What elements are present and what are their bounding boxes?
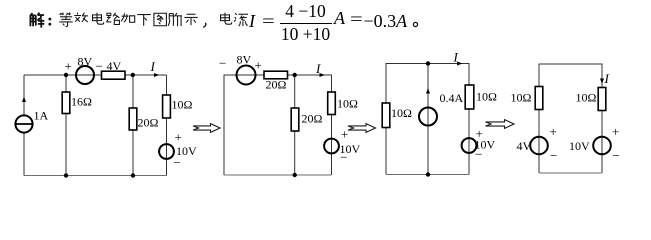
svg-text:10Ω: 10Ω <box>391 106 412 120</box>
svg-text:−: − <box>340 150 347 165</box>
svg-text:+: + <box>65 59 72 74</box>
svg-text:I: I <box>150 59 156 74</box>
svg-text:−: − <box>613 148 620 163</box>
svg-text:10Ω: 10Ω <box>476 90 497 104</box>
svg-text:+: + <box>255 58 262 73</box>
svg-text:10V: 10V <box>569 139 590 153</box>
svg-text:4V: 4V <box>517 139 532 153</box>
svg-text:I: I <box>453 50 459 65</box>
svg-text:+: + <box>175 130 182 145</box>
svg-text:+: + <box>612 124 619 139</box>
svg-text:1A: 1A <box>34 109 49 123</box>
svg-text:−: − <box>475 147 482 162</box>
svg-text:I: I <box>315 61 321 76</box>
svg-text:−: − <box>174 155 181 170</box>
svg-text:16Ω: 16Ω <box>71 95 92 109</box>
svg-text:10Ω: 10Ω <box>576 91 597 105</box>
svg-text:20Ω: 20Ω <box>302 112 323 126</box>
svg-text:−: − <box>219 56 226 71</box>
svg-text:4V: 4V <box>107 59 122 73</box>
svg-text:+: + <box>550 124 557 139</box>
svg-text:+: + <box>341 127 348 142</box>
svg-text:10Ω: 10Ω <box>511 91 532 105</box>
svg-text:20Ω: 20Ω <box>138 116 159 130</box>
svg-text:10Ω: 10Ω <box>172 98 193 112</box>
svg-text:−: − <box>96 59 103 74</box>
svg-text:−: − <box>550 148 557 163</box>
svg-text:I: I <box>604 71 610 86</box>
svg-text:8V: 8V <box>237 53 252 67</box>
svg-text:20Ω: 20Ω <box>266 78 287 92</box>
svg-text:10Ω: 10Ω <box>337 97 358 111</box>
svg-text:0.4A: 0.4A <box>440 91 464 105</box>
svg-text:8V: 8V <box>78 55 93 69</box>
